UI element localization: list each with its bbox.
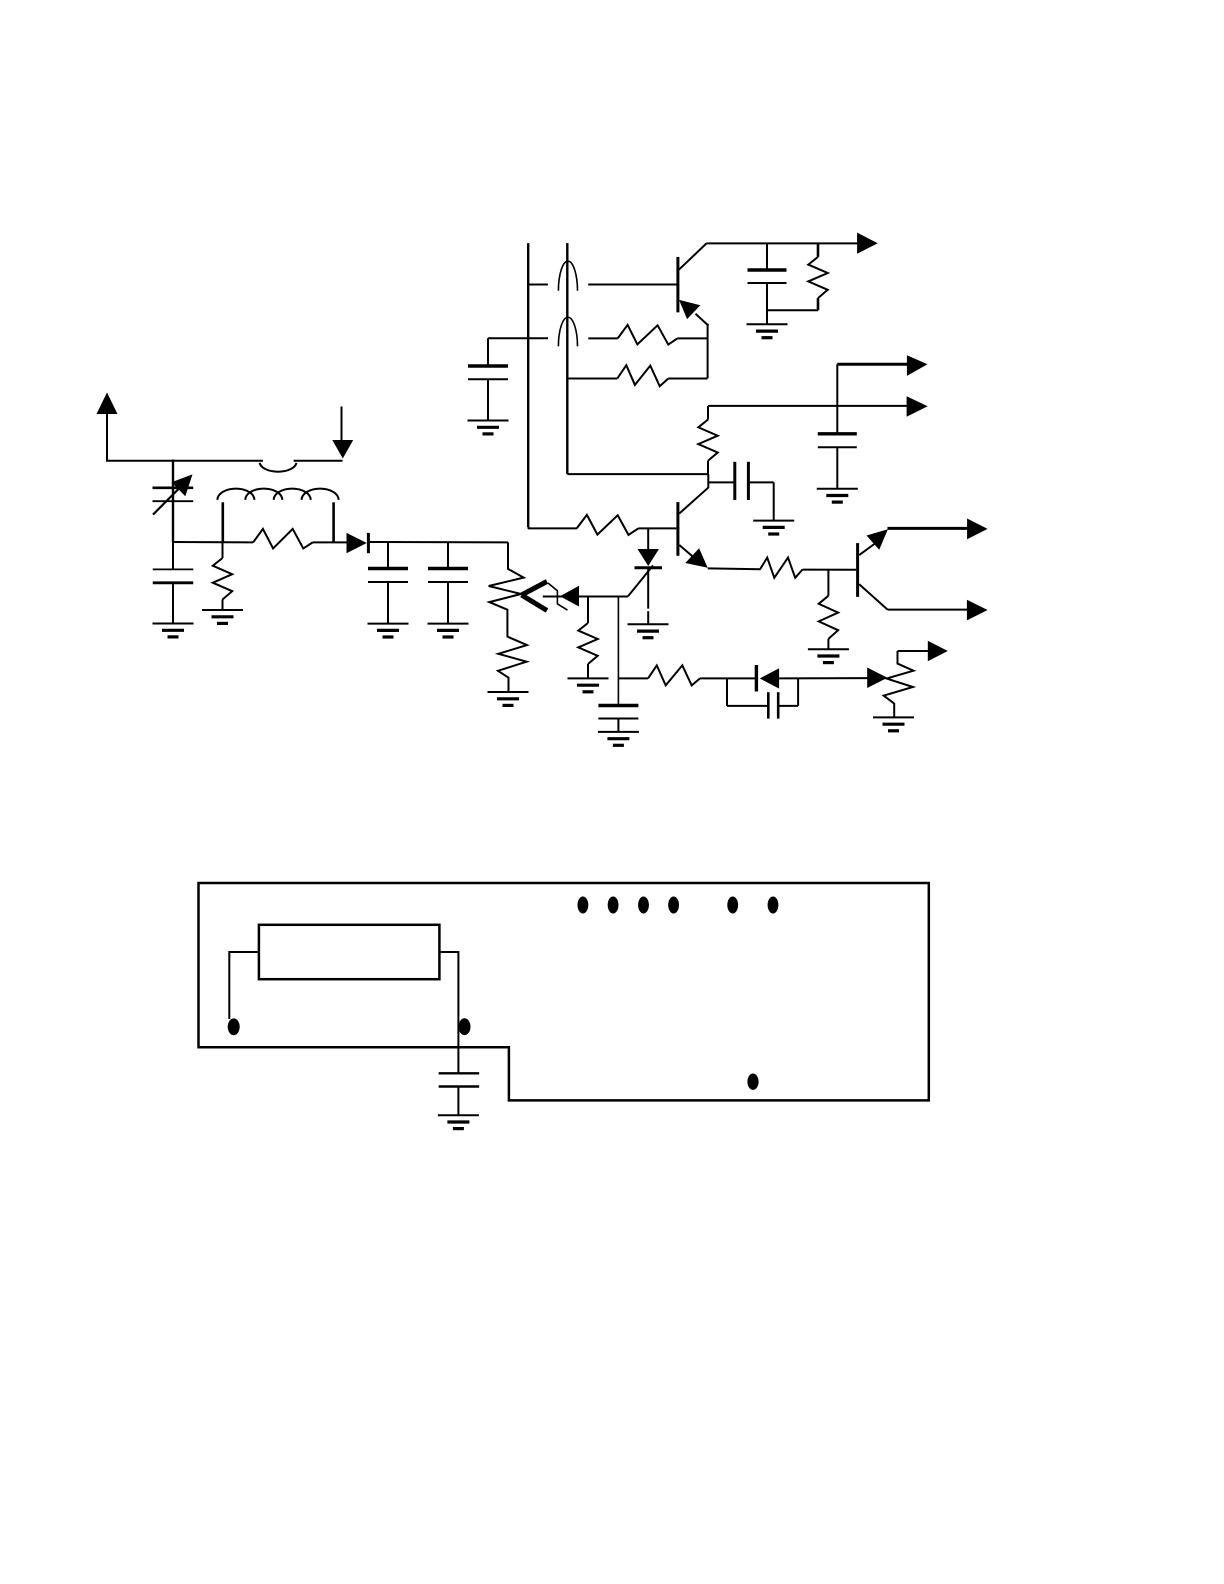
wire node A to C2 <box>172 542 174 569</box>
Q2 collector lead <box>679 474 708 513</box>
wire Q1 collector <box>707 242 858 244</box>
ground below C2 <box>153 623 194 625</box>
capacitor C5 <box>598 704 638 707</box>
ground below C8 <box>747 323 788 325</box>
wire C3 to ground <box>387 582 389 624</box>
rail wire 1 <box>527 243 529 527</box>
transistor Q2 bar <box>676 502 679 556</box>
wire down to C4 <box>447 542 449 569</box>
ground below D2 <box>628 623 669 625</box>
RF output arrow 2 <box>907 396 928 417</box>
wire C7 to ground <box>487 379 489 420</box>
wire R9 to Q2 base <box>638 527 676 529</box>
audio output arrow 1 <box>967 519 988 540</box>
capacitor C2 <box>153 568 194 570</box>
wire D3 to VR2 wiper <box>779 677 868 679</box>
wire R6 to emitter rail <box>668 378 707 380</box>
resistor R10 coupling <box>760 558 803 578</box>
resistor R5 feedback <box>618 325 678 345</box>
resistor R3 wiper load <box>587 597 589 624</box>
AGC output arrow <box>928 641 948 662</box>
Q1 collector lead <box>679 243 707 269</box>
wire output 2 <box>708 405 908 407</box>
wire Q3 collector out <box>888 609 968 611</box>
wire hop arc upper <box>558 261 577 291</box>
wire node C to R4 <box>618 677 648 679</box>
diode D3 <box>755 665 758 692</box>
variable capacitor C1 <box>153 486 194 489</box>
wire wiper to node B <box>579 596 628 598</box>
wire Q1 emitter rail <box>707 324 709 379</box>
antenna arrow <box>97 393 118 415</box>
ground below C4 <box>428 623 469 625</box>
wire C10 to ground <box>748 481 773 483</box>
inductor L1 secondary winding <box>217 489 254 500</box>
VR1 wiper tick <box>548 583 568 610</box>
ground below R3 <box>568 677 609 679</box>
Q3 collector lead <box>859 584 887 609</box>
L1 left terminal <box>222 502 225 542</box>
resistor R9 Q2 base <box>577 515 639 535</box>
ground below R11 <box>808 648 849 650</box>
mounting hole 1 <box>578 897 589 914</box>
wire Q2 collector to coupling cap <box>708 481 734 483</box>
wire feedback right segment <box>588 337 617 339</box>
component right lead <box>439 952 458 1073</box>
wire R5 to emitter rail <box>677 337 707 339</box>
component left lead <box>229 952 259 1019</box>
ground below VR1 <box>488 691 529 693</box>
ground below VR2 <box>873 716 914 718</box>
wire output 3 <box>837 363 908 366</box>
wire hop arc lower <box>558 317 577 346</box>
Q1 emitter lead <box>696 314 709 326</box>
ground below C11 <box>438 1114 479 1116</box>
resistor R4 <box>648 665 700 685</box>
wire antenna to transformer <box>106 460 263 462</box>
RF output arrow 3 <box>907 355 928 376</box>
resistor R8 to node D <box>707 406 709 420</box>
capacitor C9 <box>818 432 857 435</box>
filter capacitor C3 <box>368 567 408 570</box>
wire corner to C9 <box>836 364 838 434</box>
PCB board outline <box>199 883 929 1100</box>
transistor Q3 bar <box>856 543 859 597</box>
wire C1 to node A <box>172 521 174 542</box>
wire node B diagonal to D2 <box>628 566 653 597</box>
resistor R6 feedback <box>617 365 668 386</box>
coupling capacitor C10 <box>733 462 736 500</box>
Q2 emitter lead <box>679 545 695 559</box>
detector diode D1 <box>347 533 367 553</box>
ground below C7 <box>468 420 509 422</box>
potentiometer VR1 body <box>489 542 527 691</box>
mounting hole 3 <box>638 897 649 914</box>
wire Q3 emitter out <box>888 527 968 530</box>
node A wire to R1 <box>173 541 253 543</box>
pad hole left <box>228 1018 240 1035</box>
ground below R2 <box>202 609 243 611</box>
capacitor C8 <box>748 268 787 271</box>
resistor R7 collector load <box>817 243 820 257</box>
audio output arrow 2 <box>967 600 988 621</box>
wire VR2 to output arrow <box>898 650 929 652</box>
VR1 wiper chevron <box>522 582 548 596</box>
wire Q1 base left segment <box>528 284 548 286</box>
mounting hole 2 <box>608 897 619 914</box>
resistor R1 across L1 <box>253 529 313 549</box>
wire C2 to ground <box>172 583 174 624</box>
VR2 wiper arrow <box>867 668 887 689</box>
wire D1 to filter node <box>368 541 508 543</box>
wire down to C8 <box>766 243 768 270</box>
bypass capacitor C6 loop <box>726 678 728 706</box>
resistor R11 Q3 base bias <box>827 570 829 596</box>
transformer primary half-loop <box>260 463 297 472</box>
RF output arrow 1 <box>857 233 878 254</box>
wire loop to down-arrow <box>294 460 343 462</box>
ground below C3 <box>368 623 409 625</box>
wire node B down to C5 <box>617 597 619 706</box>
wire Q1 base right segment <box>588 284 677 286</box>
ground below C10 <box>753 520 794 522</box>
wire R1 to diode <box>313 541 348 543</box>
rail wire 2 <box>566 243 568 474</box>
wire C4 to ground <box>447 582 449 624</box>
mounting hole 7 <box>747 1074 758 1090</box>
pad hole right <box>459 1018 471 1035</box>
potentiometer VR2 body <box>884 651 914 717</box>
wire R4 to diode D3 <box>700 677 756 679</box>
wire C9 to ground <box>836 447 838 489</box>
capacitor C7 <box>468 364 508 368</box>
wire Q2 emitter <box>708 567 761 570</box>
wire rail2 to R6 <box>567 378 617 380</box>
wire C11 to ground <box>457 1087 459 1116</box>
Q3 emitter lead <box>859 544 875 556</box>
wire D2 to ground <box>647 569 649 609</box>
mounting hole 6 <box>768 897 779 914</box>
resistor R2 to ground <box>222 542 224 558</box>
mounting hole 4 <box>668 897 679 914</box>
wire R7 bottom to C8 node <box>767 309 818 311</box>
wire R10 to Q3 base <box>803 569 857 571</box>
ground below C9 <box>817 488 858 490</box>
capacitor C11 <box>439 1072 480 1074</box>
ground below C5 <box>598 731 639 733</box>
VR1 wiper arrow <box>560 586 579 607</box>
L1 right terminal <box>332 502 335 542</box>
wire C5 to ground <box>617 719 619 732</box>
wire junction down to variable capacitor <box>172 460 174 543</box>
diode D2 <box>647 528 649 549</box>
component body rectangle <box>259 925 440 979</box>
filter capacitor C4 <box>428 567 468 570</box>
wire down to C3 <box>387 542 389 569</box>
variable-capacitor arrow <box>153 489 179 515</box>
tuning down-arrow <box>341 407 343 442</box>
wire C8 to ground <box>766 283 768 324</box>
transistor Q1 bar <box>676 257 679 313</box>
mounting hole 5 <box>727 897 738 914</box>
wire corner to C7 <box>488 337 548 339</box>
wire rail2 to node D <box>567 473 708 475</box>
wire rail1 to Q2 base <box>528 527 577 529</box>
